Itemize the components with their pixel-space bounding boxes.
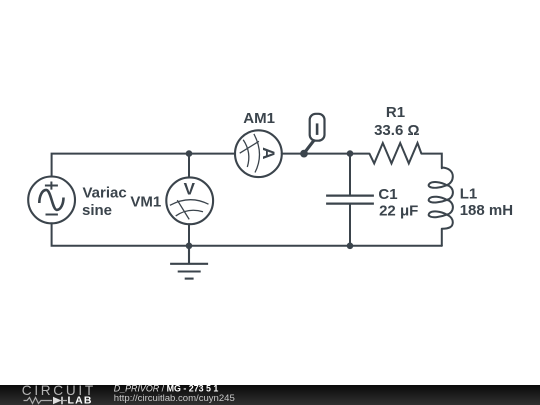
svg-text:188 mH: 188 mH bbox=[460, 202, 513, 219]
svg-text:sine: sine bbox=[82, 202, 112, 219]
wire bottom rail bbox=[52, 223, 442, 245]
wire node B to R1 bbox=[350, 153, 369, 155]
svg-text:VM1: VM1 bbox=[130, 194, 161, 211]
svg-text:A: A bbox=[259, 147, 278, 159]
wire L1 bottom bbox=[441, 229, 443, 246]
svg-text:22 μF: 22 μF bbox=[379, 203, 418, 220]
wire source top to node A bbox=[52, 154, 189, 177]
voltmeter VM1 bbox=[166, 177, 213, 224]
junction bottom VM1 bbox=[186, 243, 193, 250]
junction bottom C1 bbox=[347, 243, 354, 250]
AC source V1 Variac sine bbox=[28, 177, 75, 224]
inductor L1 bbox=[429, 168, 453, 229]
wire R1 to L1 top bbox=[421, 154, 441, 169]
svg-text:http://circuitlab.com/cuyn245: http://circuitlab.com/cuyn245 bbox=[114, 393, 235, 404]
junction node B bbox=[347, 150, 354, 157]
svg-text:33.6 Ω: 33.6 Ω bbox=[374, 122, 419, 139]
svg-text:V: V bbox=[184, 179, 196, 198]
wire C1 bottom stem bbox=[349, 204, 351, 246]
ammeter AM1 bbox=[235, 130, 282, 177]
svg-text:AM1: AM1 bbox=[243, 110, 275, 127]
wire probe node to node B bbox=[304, 153, 350, 155]
svg-text:R1: R1 bbox=[386, 104, 405, 121]
wire VM1 top branch bbox=[188, 154, 190, 178]
junction node A bbox=[186, 150, 193, 157]
resistor R1 bbox=[369, 143, 421, 163]
ground bbox=[170, 246, 208, 279]
svg-text:Variac: Variac bbox=[83, 185, 127, 202]
wire VM1 bottom branch bbox=[188, 224, 190, 245]
capacitor C1 bbox=[326, 196, 374, 204]
svg-text:LAB: LAB bbox=[68, 395, 93, 405]
svg-text:D_PRIVOR / MG - 273 5 1: D_PRIVOR / MG - 273 5 1 bbox=[114, 383, 219, 393]
svg-text:C1: C1 bbox=[378, 186, 397, 203]
wire node A to AM1 left lead bbox=[189, 153, 235, 155]
wire AM1 to probe node bbox=[282, 153, 304, 155]
wire C1 top stem bbox=[349, 154, 351, 196]
current probe I flag bbox=[304, 114, 325, 154]
CircuitLab logo bbox=[22, 383, 96, 405]
probe node dot bbox=[300, 150, 308, 158]
svg-text:L1: L1 bbox=[460, 186, 478, 203]
